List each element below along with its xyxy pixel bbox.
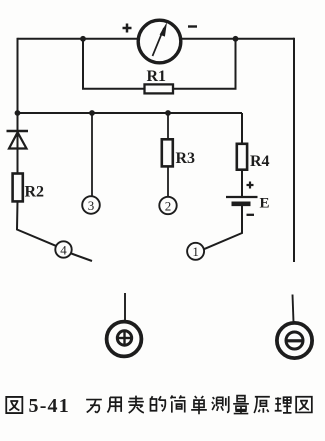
svg-text:R1: R1: [147, 68, 167, 85]
caption: 简: [171, 395, 186, 412]
wire: below R2 to switch arm: [17, 201, 56, 245]
wire: negative probe lead: [293, 295, 294, 323]
battery E negative plate: [232, 202, 251, 207]
node: meter/R1 left junction: [80, 36, 86, 42]
wire: R1 right lead: [173, 39, 236, 89]
resistor R1: [145, 84, 174, 93]
resistor R3: [162, 139, 173, 166]
label: battery -: [247, 214, 255, 216]
svg-text:3: 3: [88, 198, 95, 213]
caption: 单: [191, 396, 207, 414]
svg-text:R4: R4: [250, 153, 270, 170]
probe + (red test lead tip): [107, 322, 142, 357]
diode VD: [7, 131, 29, 149]
wire: top bus right segment: [182, 38, 294, 40]
caption: 原: [254, 397, 270, 413]
wire: right vertical rail: [293, 38, 295, 262]
wire: R4 top lead: [241, 113, 243, 144]
wire: diode top lead: [17, 113, 19, 174]
terminal 4: [55, 241, 71, 257]
node: bus terminal-3 junction: [89, 110, 95, 116]
svg-text:R3: R3: [176, 150, 196, 167]
caption: 万: [86, 400, 102, 413]
node: meter/R1 right junction: [233, 36, 239, 42]
svg-text:4: 4: [60, 242, 67, 257]
wire: left vertical riser: [17, 38, 19, 113]
svg-text:R2: R2: [25, 184, 45, 201]
wire: R4 to battery: [241, 170, 243, 196]
svg-text:E: E: [260, 196, 270, 212]
caption: 用: [107, 397, 121, 412]
terminal 2: [159, 197, 176, 214]
svg-text:1: 1: [192, 244, 199, 259]
caption: 的: [151, 396, 166, 411]
battery E positive plate: [226, 196, 258, 198]
meter M (galvanometer): [138, 20, 181, 63]
resistor R4: [237, 144, 247, 170]
wire: switch arm tail from terminal 4: [71, 254, 92, 262]
caption: 图 (second): [296, 397, 312, 413]
wire: R3 bottom lead: [167, 166, 169, 196]
wire: middle bus: [18, 112, 243, 114]
label: meter + terminal: [123, 24, 132, 33]
terminal 1: [187, 243, 204, 260]
wire: terminal 3 branch: [91, 113, 93, 196]
terminal 3: [82, 196, 100, 214]
resistor R2: [13, 174, 23, 202]
wire: battery to terminal 1: [204, 206, 242, 249]
node: bus left junction: [15, 110, 21, 116]
wire: top bus left segment: [18, 38, 138, 40]
svg-text:5-41: 5-41: [29, 395, 70, 417]
label: meter - terminal: [188, 25, 197, 27]
label: battery +: [247, 182, 254, 189]
probe - (black test lead tip): [277, 323, 312, 358]
svg-text:2: 2: [165, 198, 172, 213]
caption: 测: [212, 396, 229, 412]
caption: 图: [6, 397, 22, 413]
wire: R3 top lead: [167, 113, 169, 139]
wire: R1 left lead: [83, 38, 145, 89]
node: bus R3 junction: [165, 110, 171, 116]
caption: 理: [275, 397, 292, 413]
wire: positive probe lead: [124, 293, 126, 322]
caption: 表: [128, 396, 144, 413]
caption: 量: [233, 396, 249, 414]
